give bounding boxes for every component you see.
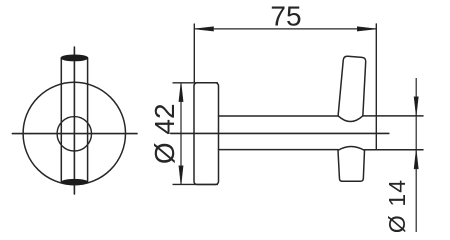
- front view: inner circle (rod boss): [57, 117, 91, 151]
- dimension 75: left arrowhead: [194, 27, 213, 31]
- front view: mounting flange outer circle: [23, 82, 125, 184]
- front view: hook peg left silhouette line: [60, 58, 62, 182]
- dimension Ø14: lower arrowhead (points up to rod bottom): [414, 150, 418, 169]
- front view: hook peg right silhouette line: [87, 58, 89, 182]
- front view: horizontal centerline: [12, 133, 137, 135]
- side view: rod right end cap / 75-dim extension line: [375, 24, 377, 150]
- dimension Ø42: bottom extension line: [173, 183, 219, 185]
- side view: rod top edge + dimension extension: [219, 115, 339, 117]
- front view: peg bottom end ellipse (dark): [62, 179, 88, 184]
- side view: hook knob lower part: [338, 147, 365, 182]
- dimension Ø42: top extension line: [173, 82, 219, 84]
- side view: rod bottom edge + dimension extension: [219, 149, 339, 151]
- dimension Ø42: top arrowhead: [179, 83, 183, 102]
- dimension Ø42: bottom arrowhead: [179, 166, 183, 185]
- dimension Ø14: dimension line: [415, 78, 417, 232]
- svg-text:Ø 42: Ø 42: [149, 103, 180, 164]
- dimension 75: left extension line (plate face): [193, 24, 195, 83]
- dimension Ø14: upper arrowhead (points down to rod top): [414, 97, 418, 116]
- dimension 75: dimension line: [194, 28, 376, 30]
- side view: hook knob upper part: [338, 56, 366, 121]
- svg-text:75: 75: [270, 1, 301, 32]
- front view: peg top end ellipse (dark): [61, 55, 88, 61]
- dimension 75: right arrowhead: [357, 27, 376, 31]
- dimension Ø42: dimension line: [180, 83, 182, 185]
- side view: wall plate: [194, 83, 219, 185]
- front view: vertical centerline: [73, 47, 75, 194]
- side view: horizontal centerline: [171, 132, 389, 134]
- svg-text:Ø 14: Ø 14: [384, 179, 410, 232]
